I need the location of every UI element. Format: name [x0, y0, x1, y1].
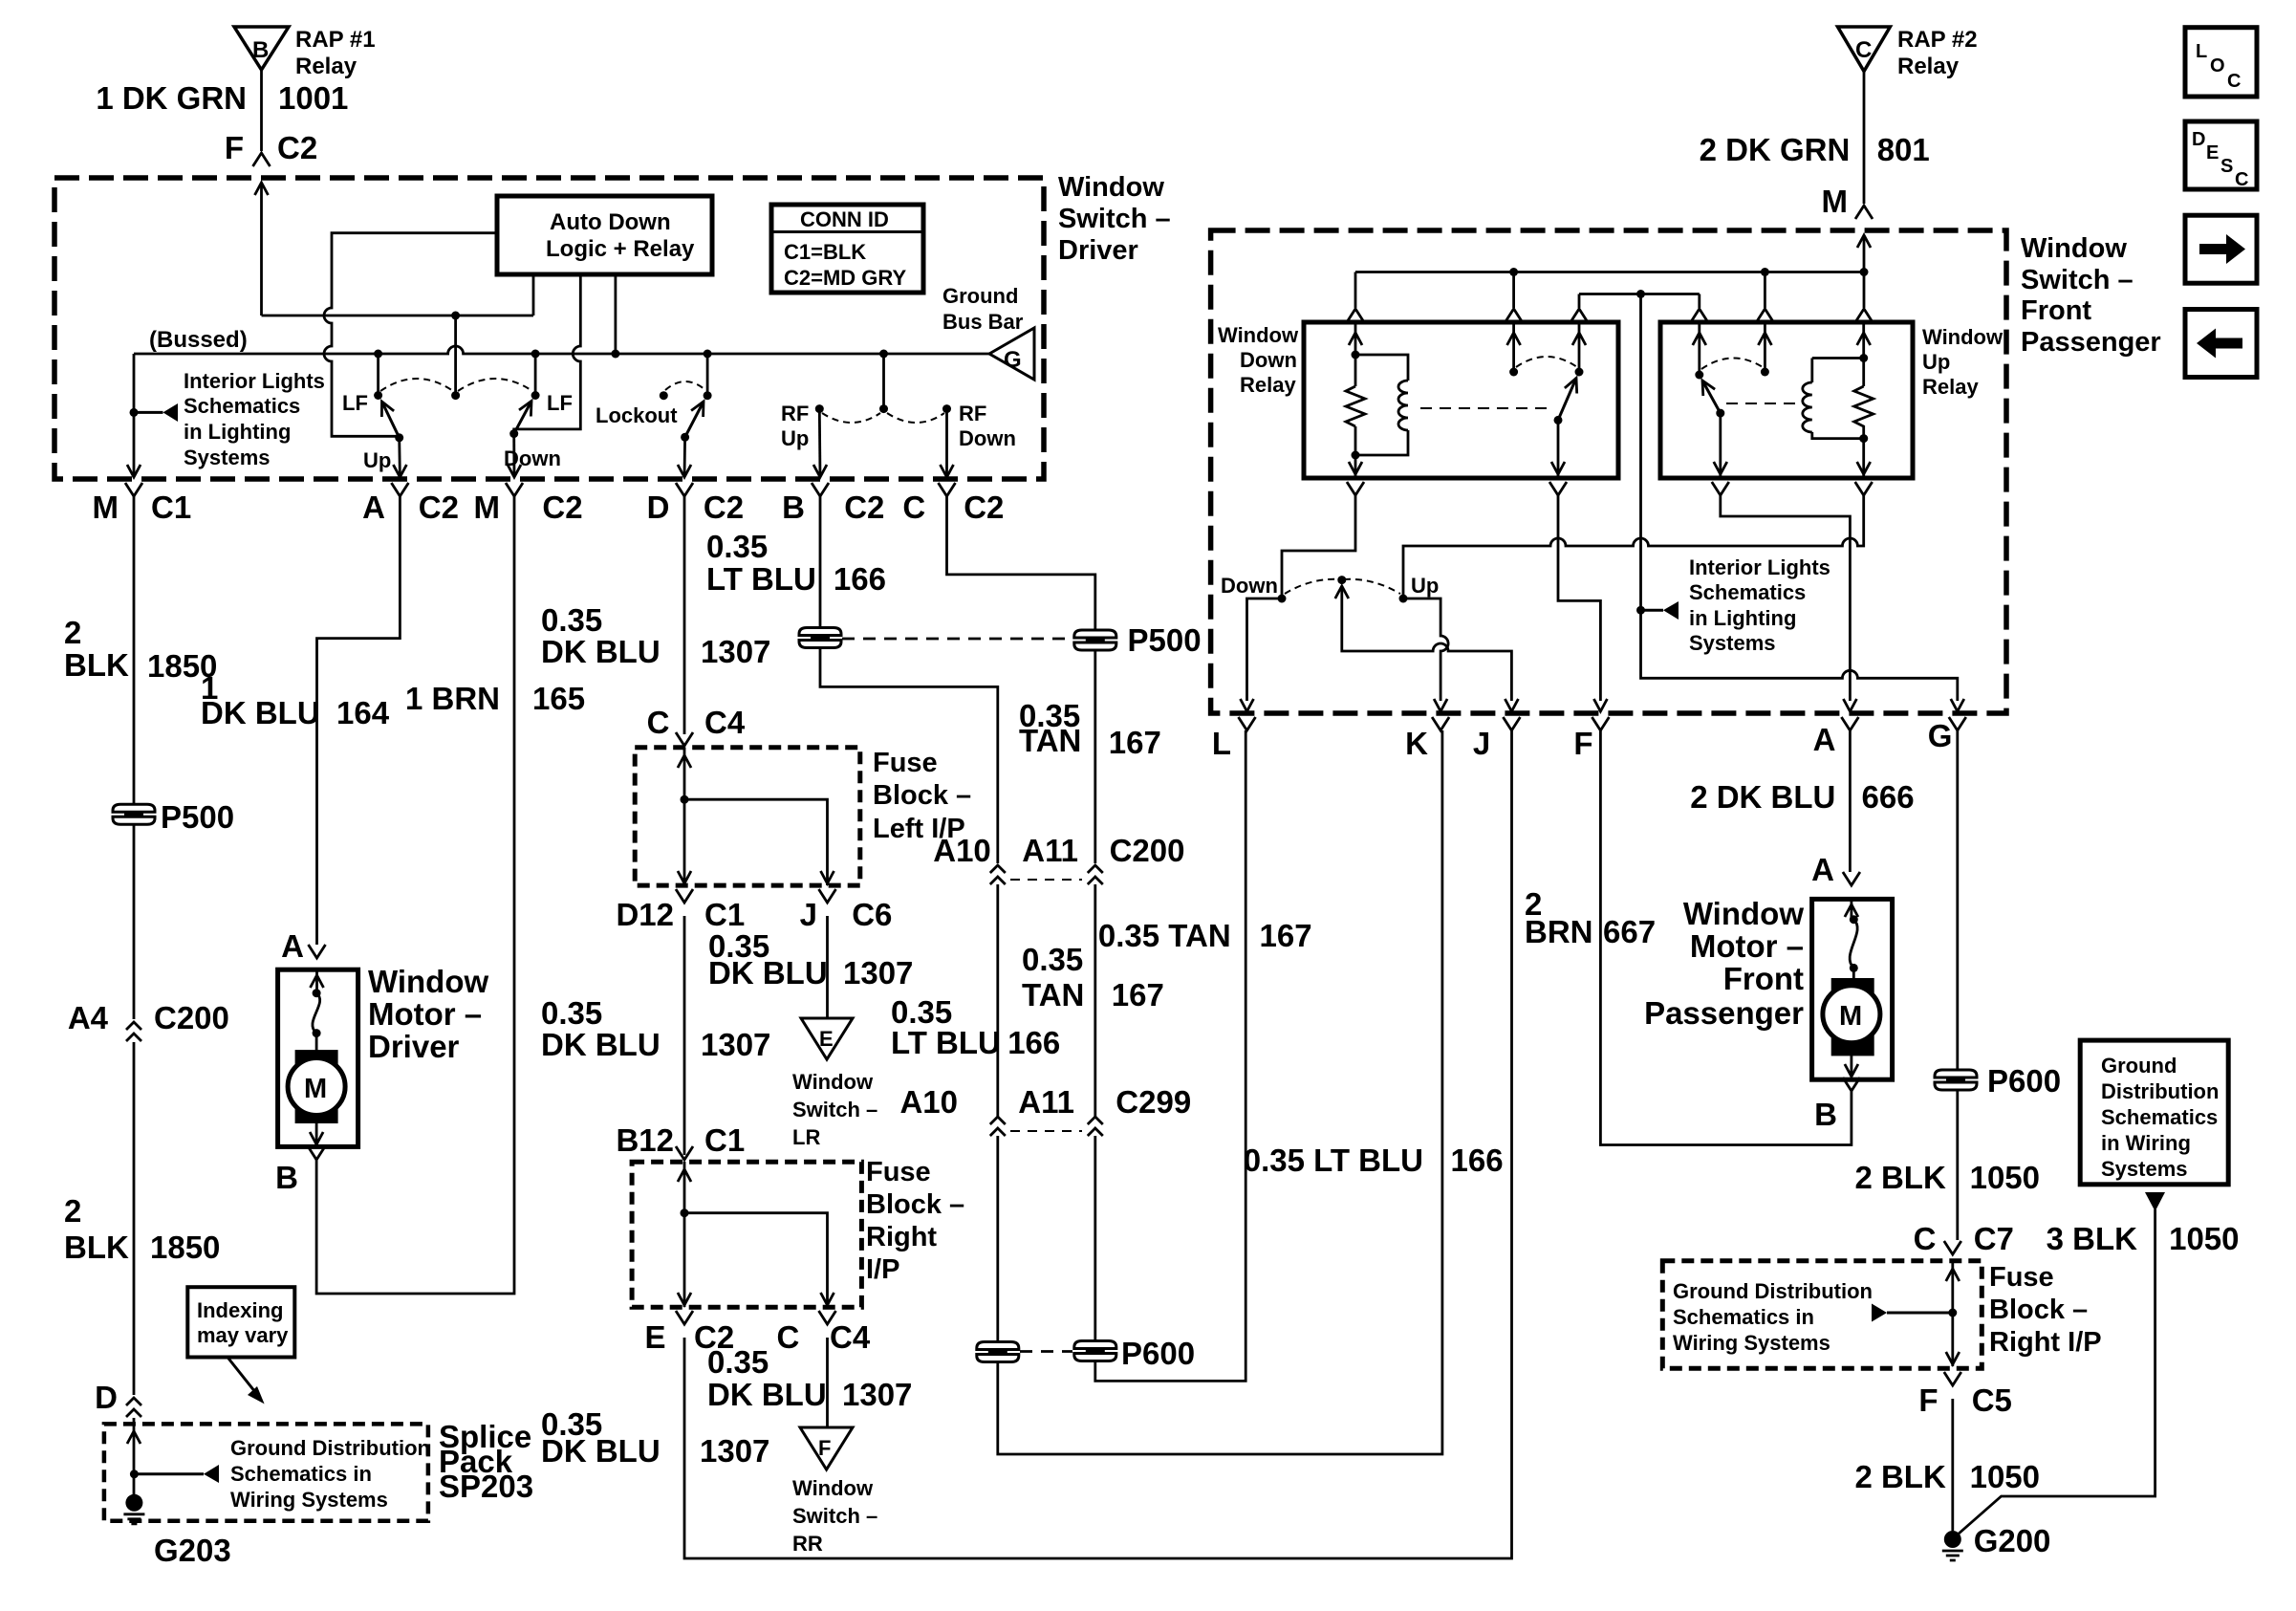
- svg-text:C2: C2: [277, 130, 317, 165]
- label RF Up: [781, 402, 809, 450]
- junction interior lights flag: [130, 408, 139, 417]
- svg-text:M: M: [1822, 184, 1849, 219]
- svg-text:DK BLU: DK BLU: [541, 1027, 661, 1062]
- svg-text:A: A: [281, 928, 304, 964]
- label 2 BLK 1050 (upper): [1854, 1160, 2040, 1195]
- svg-text:1 DK GRN: 1 DK GRN: [96, 80, 247, 116]
- wire 165 motor B to pin M/C2: [316, 496, 514, 1294]
- svg-text:P600: P600: [1121, 1336, 1195, 1371]
- icon box LOC: [2185, 28, 2257, 97]
- svg-text:BLK: BLK: [64, 1230, 129, 1265]
- label Interior Lights Schematics in Lighting Systems: [184, 369, 325, 469]
- svg-text:DK BLU: DK BLU: [707, 1377, 827, 1412]
- svg-text:Block –: Block –: [873, 780, 971, 811]
- mech dashed arc Down-plunger-Up: [1285, 579, 1400, 594]
- label Ground Distribution Schematics in Wiring Systems: [230, 1436, 430, 1512]
- svg-text:Relay: Relay: [295, 54, 357, 79]
- svg-text:A11: A11: [1022, 833, 1078, 868]
- svg-text:Systems: Systems: [1689, 631, 1776, 655]
- dashed box Fuse Block - Left I/P: [635, 748, 860, 885]
- svg-text:A: A: [362, 490, 385, 525]
- mech dashed arc lockout: [665, 381, 705, 390]
- svg-text:Window: Window: [1922, 325, 2004, 349]
- svg-text:C: C: [1914, 1221, 1937, 1256]
- svg-text:Down: Down: [1240, 348, 1297, 372]
- up relay outputs: [1714, 413, 1871, 476]
- svg-text:Ground: Ground: [2101, 1054, 2177, 1078]
- label C / C4 (lower): [777, 1319, 871, 1355]
- dashed box Window Switch - Front Passenger: [1211, 230, 2006, 713]
- mech dashed arcs RF rocker: [822, 413, 944, 423]
- driver box pin female chevrons below border: [125, 483, 956, 496]
- svg-text:3 BLK: 3 BLK: [2047, 1221, 2138, 1256]
- down relay armature: [1554, 379, 1577, 425]
- svg-text:B12: B12: [616, 1122, 674, 1158]
- junction rail A dots: [1509, 268, 1868, 276]
- grommet P500 left: [113, 804, 155, 824]
- wire 1307 from pin D: [683, 496, 686, 734]
- svg-text:L: L: [2196, 41, 2207, 62]
- svg-text:Window: Window: [368, 964, 488, 999]
- wire LF Down common to pin M/C2: [512, 434, 515, 477]
- LF Down switch: bus stub and contact: [531, 350, 540, 401]
- svg-text:I/P: I/P: [866, 1254, 899, 1285]
- svg-text:1850: 1850: [150, 1230, 220, 1265]
- svg-text:2: 2: [64, 615, 81, 650]
- ground G203: [123, 1494, 144, 1524]
- svg-text:RR: RR: [792, 1532, 823, 1556]
- dashed link P600: [1020, 1350, 1072, 1353]
- svg-text:Front: Front: [1723, 961, 1804, 996]
- label 0.35 DK BLU 1307 (upper): [541, 602, 770, 669]
- box Window Down Relay: [1304, 322, 1618, 478]
- grommet P500 (on 167): [1074, 630, 1116, 650]
- svg-text:Relay: Relay: [1240, 373, 1296, 397]
- connector F/C2 female chevron: [253, 153, 271, 166]
- svg-text:DK BLU: DK BLU: [541, 634, 661, 669]
- svg-text:1 BRN: 1 BRN: [405, 681, 500, 716]
- svg-text:0.35: 0.35: [706, 529, 768, 564]
- mech dashed arc down relay contacts: [1516, 357, 1577, 367]
- fuse left input arrow: [678, 748, 691, 885]
- rail B ground link (y=307.5): [1579, 294, 1700, 309]
- flag arrow from ground distribution box: [2145, 1192, 2165, 1211]
- svg-text:Schematics: Schematics: [184, 394, 300, 418]
- svg-text:E: E: [644, 1319, 665, 1355]
- label 2 BLK 1850 upper: [64, 615, 217, 684]
- wire 164 from pin A to motor A: [317, 496, 401, 945]
- svg-text:D: D: [2192, 129, 2205, 150]
- svg-text:G200: G200: [1974, 1523, 2051, 1558]
- wire interior lights tap to pin G: [1641, 294, 1958, 702]
- svg-text:1307: 1307: [842, 1377, 912, 1412]
- svg-text:Schematics in: Schematics in: [1673, 1305, 1814, 1329]
- svg-text:Switch –: Switch –: [1058, 204, 1171, 234]
- junction rail B tap: [1636, 290, 1645, 298]
- Lockout switch: bus stub and contact: [704, 350, 712, 401]
- label Window Switch - Front Passenger: [2021, 233, 2161, 358]
- svg-text:667: 667: [1603, 914, 1656, 949]
- svg-text:SP203: SP203: [439, 1469, 533, 1504]
- wire 166 from pin B through P500: [820, 496, 998, 863]
- svg-text:C2: C2: [419, 490, 459, 525]
- svg-text:C4: C4: [830, 1319, 871, 1355]
- mech dashed arc up relay contacts: [1701, 358, 1763, 369]
- svg-text:J: J: [800, 897, 817, 932]
- wire down-relay coil out to Down contact: [1282, 495, 1355, 599]
- ground G200: [1942, 1531, 1963, 1560]
- svg-text:S: S: [2220, 156, 2233, 177]
- Lockout arm: [681, 402, 704, 442]
- dashed box Fuse Block - Right I/P with ground text: [1662, 1261, 1982, 1369]
- label Window Up Relay: [1922, 325, 2004, 399]
- svg-text:Fuse: Fuse: [873, 748, 938, 778]
- plunger dot: [1337, 576, 1346, 584]
- svg-text:Block –: Block –: [1989, 1295, 2088, 1325]
- wire Lockout common to pin D: [683, 437, 686, 477]
- connector A female chevron: [309, 945, 326, 958]
- svg-text:Systems: Systems: [184, 446, 271, 469]
- svg-text:Driver: Driver: [368, 1029, 460, 1064]
- svg-text:C299: C299: [1116, 1084, 1191, 1120]
- wire 1307 C4 to F triangle: [826, 1338, 829, 1427]
- box Indexing may vary: [187, 1287, 294, 1357]
- LF Up switch: bus stub and contact: [374, 350, 382, 401]
- svg-text:in Lighting: in Lighting: [184, 420, 291, 444]
- label Fuse Block - Right I/P (right): [1989, 1262, 2102, 1358]
- svg-text:Motor –: Motor –: [368, 996, 482, 1032]
- svg-text:2 DK GRN: 2 DK GRN: [1700, 132, 1851, 167]
- flag ground distribution reference (right): [1872, 1304, 1953, 1322]
- wire 1850 upper: [133, 496, 136, 804]
- svg-text:2 BLK: 2 BLK: [1854, 1160, 1946, 1195]
- motor feed arrow inside (passenger): [1845, 901, 1858, 919]
- svg-text:1050: 1050: [1970, 1459, 2040, 1494]
- up relay NO contact from rail B: [1693, 324, 1706, 380]
- wire 666 pin A to motor: [1849, 730, 1852, 872]
- connector chevron below fuse: [1944, 1372, 1961, 1385]
- junction plunger top: [451, 312, 460, 320]
- connector triangle C (RAP #2 Relay): [1838, 27, 1891, 72]
- connector B female chevron: [308, 1146, 325, 1160]
- plunger sense wire to pin J (arrow up at plunger): [1335, 586, 1512, 701]
- LF Up switch arm: [381, 402, 403, 442]
- chevrons below down relay: [1347, 482, 1567, 495]
- svg-text:Down: Down: [1221, 574, 1278, 598]
- flag interior lights reference (passenger): [1641, 601, 1679, 620]
- label 0.35 TAN 167 (above C200): [1019, 698, 1161, 760]
- grommet P500 (on 166): [799, 628, 841, 648]
- connector chevrons below fuse right: [676, 1311, 836, 1324]
- junction fuse right: [681, 1208, 689, 1217]
- svg-text:RF: RF: [959, 402, 986, 425]
- svg-text:Driver: Driver: [1058, 235, 1138, 266]
- svg-text:in Lighting: in Lighting: [1689, 606, 1796, 630]
- Up contact dot: [1399, 595, 1408, 603]
- rail A power (y=284.5): [1355, 272, 1864, 309]
- wire up rail (571) up-relay coil to Up contact with hops: [1403, 495, 1864, 599]
- svg-text:Systems: Systems: [2101, 1157, 2188, 1181]
- svg-text:A: A: [1813, 722, 1836, 757]
- wire 801 from RAP#2: [1863, 72, 1866, 205]
- flag ground distribution reference: [134, 1465, 219, 1483]
- svg-text:1307: 1307: [701, 1027, 770, 1062]
- fuse output arrow: [1946, 1352, 1960, 1364]
- Lockout open contact: [660, 391, 668, 400]
- svg-text:LR: LR: [792, 1125, 820, 1149]
- svg-text:1307: 1307: [701, 634, 770, 669]
- connector row A10 A11 C299: [899, 1084, 1191, 1136]
- svg-text:A11: A11: [1018, 1084, 1074, 1120]
- wire 167 between connectors: [1094, 884, 1096, 1117]
- wire down-relay common to pin F (hop over up rail): [1558, 495, 1600, 701]
- svg-text:Passenger: Passenger: [1644, 995, 1804, 1031]
- RF rocker: bus stub: [879, 350, 888, 414]
- svg-text:J: J: [1473, 726, 1490, 761]
- wire 1850 lower: [133, 1042, 136, 1395]
- svg-text:in Wiring: in Wiring: [2101, 1131, 2191, 1155]
- svg-text:C5: C5: [1972, 1382, 2012, 1418]
- LF Down switch arm: [509, 402, 531, 439]
- svg-text:Logic + Relay: Logic + Relay: [546, 236, 695, 262]
- svg-text:C1: C1: [704, 897, 745, 932]
- grommet P600 (on 166): [977, 1342, 1019, 1362]
- svg-text:C: C: [1855, 37, 1872, 63]
- svg-text:C: C: [777, 1319, 800, 1355]
- pin label B / C2: [782, 490, 884, 525]
- svg-text:167: 167: [1112, 977, 1164, 1012]
- label 2 DK BLU 666 (A wire): [1690, 779, 1914, 815]
- connector triangle E (Window Switch LR): [801, 1018, 853, 1059]
- svg-text:Relay: Relay: [1922, 375, 1979, 399]
- svg-text:C1: C1: [151, 490, 191, 525]
- icon box DESC: [2185, 121, 2257, 190]
- svg-text:A10: A10: [933, 833, 991, 868]
- svg-text:Block –: Block –: [866, 1189, 964, 1220]
- connector B female chevron (motor passenger): [1843, 1078, 1860, 1091]
- svg-text:Interior Lights: Interior Lights: [1689, 555, 1830, 579]
- connector C/C4 female chevron: [676, 732, 693, 746]
- label 0.35 LT BLU 166 (K wire): [1244, 1143, 1504, 1178]
- fuse right branch to C4: [684, 1213, 834, 1307]
- label Splice Pack SP203: [439, 1419, 533, 1504]
- svg-text:DK BLU: DK BLU: [201, 695, 320, 730]
- svg-text:Window: Window: [1218, 323, 1299, 347]
- svg-text:Bus Bar: Bus Bar: [942, 310, 1024, 334]
- label Interior Lights Schematics in Lighting Systems (passenger): [1689, 555, 1830, 655]
- relay pin chevrons above boxes: [1347, 309, 1873, 322]
- svg-text:RF: RF: [781, 402, 809, 425]
- svg-text:CONN ID: CONN ID: [800, 207, 889, 231]
- label 2 BLK 1850 lower: [64, 1193, 220, 1265]
- svg-text:Fuse: Fuse: [866, 1157, 931, 1187]
- svg-text:Window: Window: [792, 1476, 874, 1500]
- svg-text:C4: C4: [704, 705, 746, 740]
- svg-text:Up: Up: [1922, 350, 1950, 374]
- svg-text:B: B: [782, 490, 805, 525]
- label Window Switch - RR: [792, 1476, 877, 1556]
- label C / C7: [1914, 1221, 2014, 1256]
- svg-text:M: M: [93, 490, 119, 525]
- svg-text:LT BLU: LT BLU: [891, 1025, 1001, 1060]
- svg-text:B: B: [275, 1160, 298, 1195]
- wire 1001 from RAP#1 to switch: [260, 70, 263, 151]
- mech dashed link armature to coil: [1726, 403, 1801, 404]
- svg-text:C2: C2: [964, 490, 1004, 525]
- label 0.35 TAN 167 (L wire): [1098, 918, 1312, 953]
- grommet P600 (on 167): [1074, 1341, 1116, 1361]
- svg-text:F: F: [225, 130, 244, 165]
- motor brush contacts: [313, 989, 321, 1037]
- svg-text:LF: LF: [547, 391, 573, 415]
- svg-text:TAN: TAN: [1019, 723, 1081, 758]
- svg-text:Schematics in: Schematics in: [230, 1462, 372, 1486]
- plunger bottom dot: [451, 391, 460, 400]
- svg-text:Down: Down: [959, 426, 1016, 450]
- svg-text:Schematics: Schematics: [1689, 580, 1806, 604]
- pin label D / C2: [647, 490, 744, 525]
- wire auto-down output to LF Up common (with hops): [324, 233, 497, 437]
- label A4 / C200: [68, 1000, 229, 1035]
- mech dashed link coil to armature: [1420, 407, 1553, 409]
- svg-text:Right I/P: Right I/P: [1989, 1327, 2102, 1358]
- Ground Bus Bar triangle G: [989, 328, 1034, 380]
- wire 166 to P600: [998, 730, 1442, 1454]
- connector triangle F (Window Switch RR): [800, 1427, 853, 1469]
- svg-text:Motor –: Motor –: [1690, 928, 1804, 964]
- flag interior lights reference: [134, 403, 178, 422]
- wire 1850 below grommet: [133, 824, 136, 1019]
- arrow indexing note: [227, 1358, 265, 1404]
- svg-text:166: 166: [1451, 1143, 1504, 1178]
- passenger pin chevrons below border: [1239, 717, 1966, 730]
- Down contact dot: [1278, 595, 1287, 603]
- dashed box splice pack SP203: [104, 1424, 428, 1520]
- up relay resistor feed: [1857, 324, 1871, 386]
- label D12 / C1: [616, 897, 745, 932]
- svg-text:F: F: [818, 1436, 831, 1460]
- connector triangle B (RAP #1 Relay): [234, 27, 289, 70]
- label Window Down Relay: [1218, 323, 1299, 397]
- svg-text:DK BLU: DK BLU: [541, 1433, 661, 1469]
- connector C/C7 female chevron: [1944, 1241, 1961, 1254]
- svg-text:C: C: [2235, 169, 2248, 190]
- svg-text:C2: C2: [844, 490, 884, 525]
- svg-text:A10: A10: [899, 1084, 958, 1120]
- svg-text:0.35: 0.35: [541, 995, 602, 1031]
- label E / C2: [644, 1319, 734, 1355]
- svg-text:C1=BLK: C1=BLK: [784, 240, 866, 264]
- label 0.35 DK BLU 1307 (E wire): [541, 1406, 769, 1469]
- svg-text:Window: Window: [2021, 233, 2127, 264]
- connector M arrow into box: [1857, 235, 1871, 272]
- label 0.35 TAN 167 (below C200): [1022, 942, 1164, 1012]
- wire auto-down right stub to bus: [615, 274, 617, 354]
- label RAP #2 Relay: [1897, 27, 1978, 79]
- motor M armature (passenger): [1823, 968, 1880, 1056]
- up relay resistor: [1854, 386, 1874, 439]
- svg-text:M: M: [474, 490, 501, 525]
- svg-text:DK BLU: DK BLU: [708, 955, 828, 991]
- svg-text:2 DK BLU: 2 DK BLU: [1690, 779, 1835, 815]
- fuse input arrow (right fuse block): [1946, 1262, 1960, 1366]
- svg-text:(Bussed): (Bussed): [149, 327, 248, 353]
- svg-text:D12: D12: [616, 897, 674, 932]
- svg-text:2 BLK: 2 BLK: [1854, 1459, 1946, 1494]
- svg-text:0.35: 0.35: [541, 602, 602, 638]
- dashed box Fuse Block - Right I/P (center): [632, 1162, 861, 1307]
- label Ground Bus Bar: [942, 284, 1024, 334]
- label RF Down: [959, 402, 1016, 450]
- svg-text:Distribution: Distribution: [2101, 1079, 2219, 1103]
- svg-text:C1: C1: [704, 1122, 745, 1158]
- svg-text:E: E: [2206, 142, 2219, 163]
- svg-text:C2: C2: [704, 490, 744, 525]
- label RAP #1 Relay: [295, 27, 376, 79]
- svg-text:C2=MD GRY: C2=MD GRY: [784, 266, 906, 290]
- wire 1050 from pin G through P600: [1956, 730, 1959, 1240]
- label 0.35 DK BLU 1307 (mid): [541, 995, 770, 1062]
- wire 1050 to ground G200: [1951, 1399, 1954, 1531]
- svg-text:167: 167: [1260, 918, 1312, 953]
- wire RF Down to pin C: [945, 409, 948, 477]
- svg-text:Wiring Systems: Wiring Systems: [230, 1488, 388, 1512]
- svg-text:Ground Distribution: Ground Distribution: [230, 1436, 430, 1460]
- motor brush contacts (passenger): [1850, 915, 1858, 972]
- wire LF Up common to pin A: [398, 438, 401, 477]
- down relay coil+resistor feed: [1349, 324, 1362, 386]
- connector row A10 A11 C200: [933, 833, 1184, 884]
- icon box arrow left: [2185, 310, 2257, 378]
- svg-text:P600: P600: [1987, 1063, 2061, 1099]
- wire 1307 E/C2 long run to J passenger: [684, 730, 1512, 1558]
- svg-text:LT BLU: LT BLU: [706, 561, 816, 597]
- label J / C6: [800, 897, 893, 932]
- svg-text:1050: 1050: [1970, 1160, 2040, 1195]
- wire 667 motor B to pin F: [1600, 730, 1852, 1145]
- svg-text:1001: 1001: [278, 80, 348, 116]
- junction fuse left: [681, 795, 689, 804]
- pin label M / C1: [93, 490, 192, 525]
- wire Up contact to pin K (hop over plunger line): [1403, 599, 1448, 701]
- box Window Up Relay: [1660, 322, 1913, 478]
- fuse left branch to J: [684, 799, 834, 885]
- svg-text:Schematics: Schematics: [2101, 1105, 2218, 1129]
- down relay outputs: [1349, 420, 1565, 476]
- label Fuse Block - Right I/P: [866, 1157, 964, 1285]
- svg-text:1050: 1050: [2169, 1221, 2239, 1256]
- label 2 BLK 1050 (lower): [1854, 1459, 2040, 1494]
- box Ground Distribution Schematics in Wiring Systems (solid): [2080, 1040, 2228, 1185]
- fuse right input arrow: [678, 1162, 691, 1307]
- svg-text:O: O: [2210, 55, 2225, 76]
- svg-text:Up: Up: [781, 426, 809, 450]
- box Auto Down Logic + Relay: [497, 196, 712, 274]
- svg-text:F: F: [1573, 726, 1592, 761]
- wire RF Up to pin B: [818, 409, 822, 477]
- wire 1307 J to E triangle: [826, 916, 829, 1018]
- connector chevrons below fuse left: [676, 889, 836, 903]
- box CONN ID table: [771, 205, 923, 293]
- down relay NC contact from rail A: [1507, 324, 1521, 377]
- svg-text:Window: Window: [792, 1070, 874, 1094]
- svg-text:Wiring Systems: Wiring Systems: [1673, 1331, 1830, 1355]
- svg-text:2: 2: [64, 1193, 81, 1229]
- label 3 BLK 1050: [2047, 1221, 2240, 1256]
- junction splice flag: [130, 1469, 139, 1478]
- svg-text:C7: C7: [1974, 1221, 2014, 1256]
- wire auto-down left stub to LF Down common (hop over bus): [514, 274, 581, 434]
